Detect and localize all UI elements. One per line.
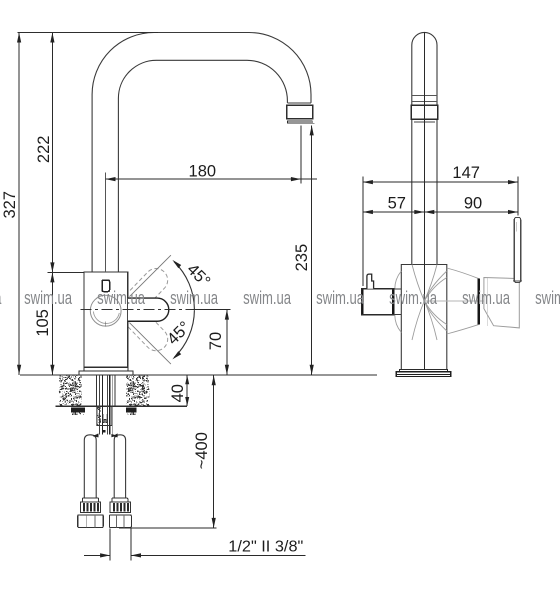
- extension line body top: [48, 271, 84, 273]
- collar lip: [414, 121, 435, 123]
- horseshoe washer: [103, 414, 107, 423]
- dim ~400: [213, 375, 215, 528]
- extension line top: [18, 32, 158, 34]
- fixing pad right: [126, 407, 137, 412]
- mounting cone nut: [97, 406, 112, 425]
- svg-text:swim.ua: swim.ua: [24, 287, 72, 308]
- countertop top line: [20, 374, 377, 376]
- aerator cap bottom extension: [288, 122, 315, 124]
- supply pipe lines: [98, 375, 100, 435]
- fixing pad left: [71, 407, 85, 412]
- svg-text:327: 327: [1, 191, 19, 219]
- handle (solid, horizontal): [128, 298, 169, 321]
- handle rotated 45 up (dashed): [121, 264, 173, 316]
- handle rotated 45 down (dashed): [121, 303, 173, 355]
- svg-text:swim.ua: swim.ua: [316, 287, 364, 308]
- dim 222: [51, 33, 53, 273]
- base plate upper: [84, 367, 128, 371]
- svg-text:70: 70: [207, 332, 225, 350]
- tube inner contour line: [105, 173, 107, 272]
- spray head joint (thick): [477, 279, 480, 325]
- dim 1/2-3/8 lines: [84, 554, 110, 556]
- svg-text:57: 57: [388, 195, 406, 213]
- svg-text:180: 180: [189, 163, 217, 181]
- svg-text:swim.ua: swim.ua: [97, 287, 145, 308]
- set screw slot: [102, 280, 110, 292]
- dim 70: [226, 310, 228, 375]
- counter hatch left: [59, 376, 82, 406]
- riser thin band: [412, 95, 437, 97]
- dim 235: [311, 125, 313, 374]
- diverter knob side: [362, 289, 394, 315]
- faucet body: [84, 272, 128, 367]
- center line of handle: [80, 309, 193, 311]
- spray head body: [484, 278, 519, 328]
- svg-text:40: 40: [169, 384, 187, 402]
- svg-text:105: 105: [34, 309, 52, 337]
- svg-text:1/2" II 3/8": 1/2" II 3/8": [228, 539, 303, 556]
- hose top wedge marks: [93, 433, 99, 437]
- fan sector line lower: [130, 323, 171, 364]
- dim 1/2-3/8 extension lines: [109, 529, 111, 561]
- svg-text:swim.ua: swim.ua: [243, 287, 291, 308]
- right fan flare curves: [412, 265, 424, 302]
- extension right: [517, 177, 519, 216]
- hex nut right: [109, 515, 131, 528]
- hex nut left: [78, 515, 104, 528]
- spout end line: [287, 102, 311, 104]
- aerator end cap: [288, 121, 313, 123]
- dim 40: [186, 375, 188, 406]
- svg-text:~400: ~400: [193, 432, 211, 469]
- spray lever bar: [514, 218, 520, 283]
- extension ~400 bottom: [119, 527, 216, 529]
- hose left: [84, 435, 96, 498]
- side base plate lower: [396, 372, 450, 377]
- side view riser tube: [412, 32, 437, 264]
- rib marks: [83, 503, 85, 511]
- fan arc lower: [174, 310, 194, 358]
- fan sector line upper: [130, 255, 171, 296]
- svg-text:swim.ua: swim.ua: [170, 287, 218, 308]
- circle bottom tick: [105, 322, 107, 327]
- threaded shank left wall: [95, 375, 97, 406]
- dim 147: [363, 181, 518, 183]
- ribbed nut right: [110, 502, 130, 512]
- lever bar foot: [513, 280, 522, 282]
- base plate lower: [79, 371, 133, 375]
- threaded shank right wall: [114, 375, 116, 406]
- hose right: [114, 435, 125, 498]
- svg-text:swim.ua: swim.ua: [535, 287, 560, 308]
- dim 90: [424, 211, 518, 213]
- ribbed nut left: [80, 502, 100, 512]
- side base plate upper: [400, 369, 448, 372]
- knob top tab: [367, 274, 374, 289]
- svg-text:90: 90: [464, 195, 482, 213]
- svg-text:222: 222: [35, 136, 53, 164]
- dim 327: [18, 33, 20, 375]
- counter hatch right: [126, 376, 150, 406]
- dim 105: [51, 272, 53, 374]
- spout inner contour: [118, 60, 287, 272]
- dim 57: [363, 211, 424, 213]
- dim 180: [106, 178, 318, 180]
- spout outer contour: [92, 33, 311, 273]
- svg-text:swim.ua: swim.ua: [462, 287, 510, 308]
- body center line: [423, 32, 425, 375]
- svg-text:147: 147: [452, 164, 480, 182]
- cartridge circle inner: [93, 312, 119, 324]
- fan arc upper: [174, 262, 194, 310]
- hose collar left: [83, 498, 99, 502]
- svg-text:235: 235: [293, 244, 311, 272]
- aerator body: [287, 105, 313, 118]
- riser collar box: [411, 105, 438, 119]
- side body column: [401, 265, 447, 371]
- left knob flare curves: [395, 271, 402, 289]
- stud end mark: [102, 430, 106, 433]
- svg-text:swim.ua: swim.ua: [389, 287, 437, 308]
- extension left: [362, 177, 364, 287]
- countertop bottom line: [56, 405, 188, 407]
- extension 180 right: [300, 126, 302, 184]
- extension 70 top: [194, 309, 231, 311]
- cartridge circle outer: [90, 295, 121, 326]
- knob-body link lines: [394, 288, 401, 290]
- hose collar right: [112, 498, 128, 502]
